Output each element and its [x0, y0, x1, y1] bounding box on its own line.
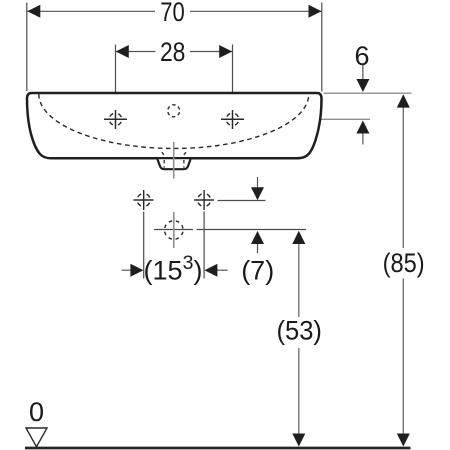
svg-text:6: 6 [354, 41, 369, 71]
svg-text:28: 28 [160, 37, 186, 67]
svg-text:(53): (53) [276, 316, 322, 346]
svg-text:(7): (7) [241, 255, 274, 285]
svg-text:(153): (153) [144, 252, 203, 286]
svg-text:0: 0 [29, 397, 44, 427]
svg-text:70: 70 [160, 0, 185, 27]
svg-text:(85): (85) [383, 248, 425, 278]
